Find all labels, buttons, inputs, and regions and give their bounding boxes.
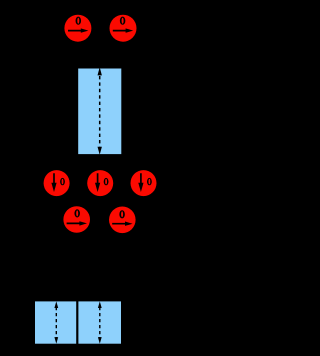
moment arrow of atom B3 (points down) (138, 173, 143, 192)
moment arrow of atom B2 (points down) (95, 173, 100, 192)
atom circle A1 (top left) (64, 15, 91, 42)
label 0 on atom B2 (104, 178, 109, 185)
label 0 on atom B1 (60, 178, 65, 185)
moment arrow of atom A1 (points right) (68, 28, 88, 32)
label 0 on atom C1 (74, 209, 80, 217)
label 0 on atom B3 (147, 178, 152, 185)
atom circle B1 (middle row left) (44, 170, 70, 196)
cavity rectangle right (bottom) (78, 301, 121, 343)
field arrow in left bottom cavity: dashed vertical double-headed (54, 301, 58, 343)
atom circle B2 (middle row center) (87, 170, 113, 196)
label 0 on atom C2 (119, 210, 125, 218)
moment arrow of atom A2 (points right) (113, 28, 133, 32)
field arrow in tall cavity: dashed vertical double-headed (98, 67, 102, 155)
label 0 on atom A2 (120, 17, 126, 25)
cavity rectangle left (bottom) (35, 301, 76, 343)
moment arrow of atom C1 (points right) (67, 221, 87, 225)
moment arrow of atom C2 (points right) (112, 222, 132, 226)
atom circle A2 (top right) (110, 15, 137, 42)
atom circle C1 (lower pair left) (63, 206, 90, 233)
cavity rectangle (tall, middle) (78, 69, 121, 155)
atom circle B3 (middle row right) (131, 170, 157, 196)
field arrow in right bottom cavity: dashed vertical double-headed (98, 301, 102, 343)
label 0 on atom A1 (76, 17, 82, 25)
atom circle C2 (lower pair right) (109, 207, 136, 234)
moment arrow of atom B1 (points down) (51, 173, 56, 192)
